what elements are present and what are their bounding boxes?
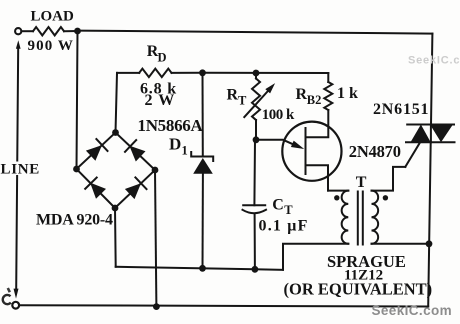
capacitor C_T 0.1 uF top plate: [243, 204, 265, 206]
svg-text:2N4870: 2N4870: [349, 142, 401, 161]
svg-text:LINE: LINE: [1, 162, 40, 178]
UJT Q1 2N4870 envelope circle: [282, 122, 341, 181]
bridge diode (B to R): [125, 183, 141, 199]
wire: R_B2 bottom to UJT base2: [307, 110, 329, 137]
bridge edge B-R: [115, 170, 155, 208]
wire: resistor to top-rail junction: [64, 30, 78, 32]
wire: R_T bottom lead: [255, 120, 257, 140]
svg-text:2N6151: 2N6151: [373, 101, 429, 118]
wire: right rail upper (corner down to triac MT2): [431, 34, 432, 125]
wire: LOAD terminal to resistor: [22, 30, 33, 32]
node: bridge left vertex AC1: [73, 166, 80, 173]
node: junction on right rail: [426, 240, 433, 247]
svg-text:MDA 920-4: MDA 920-4: [36, 212, 113, 229]
bridge diode (B to L): [90, 183, 106, 199]
transformer T primary winding (left coil): [342, 191, 349, 244]
svg-text:(OR EQUIVALENT): (OR EQUIVALENT): [284, 280, 433, 299]
R_T wiper arrow: [244, 88, 271, 118]
LOAD terminal (open circle, top left): [15, 28, 21, 34]
capacitor C_T bottom plate (curved): [243, 210, 267, 213]
node: top-rail junction dot: [74, 28, 81, 35]
resistor R_D 6.8k 2W: [139, 69, 171, 77]
UJT base bar: [305, 128, 307, 174]
svg-text:T: T: [238, 94, 247, 108]
wire: junction down to zener cathode: [202, 73, 204, 157]
label LINE: [0, 162, 37, 176]
resistor R_B2 1k: [324, 82, 332, 110]
potentiometer R_T 100k (zigzag): [252, 79, 260, 121]
bridge edge B-L: [77, 169, 116, 208]
svg-text:SeekIC.com: SeekIC.com: [372, 303, 453, 318]
wire: bottom rail: [19, 305, 428, 306]
svg-text:1N5866A: 1N5866A: [138, 116, 204, 135]
node: junction on bottom rail: [153, 303, 160, 310]
svg-text:R: R: [296, 86, 308, 103]
wire: bridge AC2 down to bottom rail: [155, 170, 156, 307]
svg-text:2 W: 2 W: [145, 92, 176, 109]
arrow down toward LINE terminal: [14, 289, 19, 299]
zener D1 triangle (pointing up): [193, 158, 213, 174]
svg-text:LOAD: LOAD: [31, 9, 75, 25]
wire: C_T bottom to common wire: [254, 214, 256, 270]
node: R_T / C_T / emitter junction: [253, 136, 260, 143]
wire: LOAD junction down to bridge AC1 (left vertex): [77, 31, 78, 169]
svg-text:T: T: [356, 174, 367, 191]
zener diode D1 1N5866A (cathode bar with bent tips): [191, 152, 213, 161]
svg-text:SeekIC.com: SeekIC.com: [408, 55, 460, 67]
wire: common horizontal run: [116, 267, 283, 270]
svg-text:1 k: 1 k: [337, 85, 358, 102]
bridge diode (L to T): [86, 145, 102, 161]
svg-text:C: C: [272, 197, 284, 214]
wire: triac gate diagonal: [405, 141, 420, 167]
node: bridge bottom vertex DC-: [112, 205, 119, 212]
node: R_T top junction: [253, 70, 260, 77]
triac left triangle (pointing up): [411, 125, 431, 143]
node: zener anode junction on common wire: [199, 265, 206, 272]
resistor LOAD 900 W: [33, 27, 64, 35]
bridge MDA 920-4 : edge L-T: [77, 133, 116, 170]
wire: common jog up to transformer primary bottom: [283, 244, 348, 270]
wire: zener anode down to common wire: [202, 174, 204, 269]
svg-text:T: T: [284, 203, 293, 217]
wire: top rail (junction to right corner): [78, 31, 433, 34]
node: bridge right vertex AC2: [152, 167, 159, 174]
svg-text:R: R: [227, 87, 239, 104]
svg-text:1: 1: [182, 144, 188, 158]
wire: R_T top lead: [255, 73, 257, 79]
triac 2N6151 MT2 bar: [407, 124, 454, 126]
svg-text:100 k: 100 k: [262, 107, 295, 123]
transformer core lines: [357, 192, 359, 245]
wire: secondary top lead to triac gate: [372, 167, 406, 191]
node: bridge top vertex DC+: [112, 129, 119, 136]
wire: R_D left lead: [117, 72, 139, 74]
UJT base1 lead (down to transformer): [307, 165, 329, 190]
wire: primary top lead to UJT base1: [328, 190, 348, 192]
wire: secondary bottom lead to right rail: [372, 243, 430, 245]
svg-text:D: D: [169, 135, 181, 154]
transformer polarity dot (primary): [334, 195, 339, 200]
svg-text:0.1 μF: 0.1 μF: [259, 218, 309, 235]
wire: corner down into R_B2: [327, 73, 329, 82]
bridge diode (R to T): [129, 146, 145, 162]
triac right triangle (pointing down): [430, 125, 453, 143]
scan artifact: partial glyphs at left page edge: [3, 295, 11, 304]
bridge edge R-T: [116, 133, 156, 171]
arrow up toward LOAD terminal: [16, 46, 18, 288]
transformer T secondary winding (right coil): [372, 191, 379, 244]
wire: common (DC-) wire from bridge bottom: [114, 208, 117, 267]
svg-text:B2: B2: [307, 93, 322, 107]
wire: bridge DC+ up to R_D left end: [116, 73, 118, 133]
triac MT1 bar: [406, 141, 455, 143]
UJT emitter wire from R_T junction: [256, 140, 297, 146]
wire: between triac bars: [430, 125, 432, 143]
wire: R_D right lead to junction: [172, 72, 203, 74]
wire: right rail lower (triac MT1 to bottom rail): [428, 142, 431, 306]
wire: supply rail from D1 junction to R_B2 corner: [203, 72, 329, 74]
UJT emitter arrowhead: [291, 141, 304, 149]
LINE terminal (open circle, bottom left): [12, 302, 19, 309]
wire: junction down to C_T top plate: [253, 140, 256, 206]
node: C_T junction on common wire: [252, 266, 259, 273]
svg-text:900 W: 900 W: [28, 38, 74, 54]
svg-text:D: D: [158, 51, 167, 65]
node: R_D / D1 junction: [199, 69, 206, 76]
transformer polarity dot (secondary): [383, 195, 388, 200]
